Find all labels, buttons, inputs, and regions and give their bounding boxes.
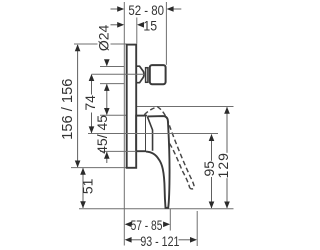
wire ext line plate bottom — [71, 167, 126, 169]
wire ext line handle base bottom — [100, 150, 136, 152]
wire ext line dome top — [100, 66, 124, 68]
arrowhead 95 top — [209, 134, 215, 141]
wire dim shaft 74 — [91, 75, 93, 133]
wire dim shaft below 45/45 — [106, 152, 108, 163]
dashed lever open position: top corner and right edge — [144, 107, 194, 189]
arrowhead 15 right (points left) — [137, 22, 144, 28]
wire dim stub 93-121 right — [179, 239, 192, 241]
text mask for 129 — [217, 153, 229, 178]
svg-text:129: 129 — [215, 152, 231, 178]
arrowhead 93-121 right (points right) — [190, 237, 197, 243]
svg-text:52 - 80: 52 - 80 — [128, 2, 164, 18]
wire dim stub 93-121 left — [131, 239, 142, 241]
wire bottom reference line — [79, 208, 234, 210]
arrowhead 93-121 left (points left) — [125, 237, 132, 243]
wire dim shaft 52-80 right — [173, 8, 182, 10]
arrowhead 156 top — [75, 44, 81, 51]
svg-text:57 - 85: 57 - 85 — [131, 218, 163, 234]
wire ext line handle base top — [100, 114, 126, 116]
valve stub band — [146, 68, 148, 83]
arrowhead 74 bottom — [89, 126, 95, 133]
svg-text:51: 51 — [80, 178, 96, 194]
dashed lever open position: left edge — [170, 144, 190, 188]
handle base — [136, 116, 146, 152]
arrowhead 52-80 right (points left) — [167, 6, 174, 12]
arrowhead Ø24 top (points down) — [104, 59, 110, 66]
wire ext line dome bottom — [100, 83, 124, 85]
svg-text:45/ 45: 45/ 45 — [94, 115, 110, 154]
svg-text:Ø24: Ø24 — [96, 24, 112, 51]
text mask for 74 — [85, 95, 96, 113]
valve stub dome — [137, 66, 144, 83]
wire ext line dashed lever top — [136, 106, 233, 108]
arrowhead 57-85 right (points right) — [163, 222, 170, 228]
svg-text:93 - 121: 93 - 121 — [140, 233, 179, 249]
arrowhead 15 left (points right) — [117, 22, 124, 28]
valve stub cap — [150, 65, 166, 84]
arrowhead 74 top — [89, 74, 95, 81]
arrowhead 129 top — [224, 107, 230, 114]
arrowhead 156 bottom — [75, 161, 81, 168]
lever blade fill — [146, 116, 170, 208]
svg-text:74: 74 — [82, 95, 98, 111]
wire ext line plate top — [74, 43, 126, 45]
arrowhead Ø24 bottom (points up) — [104, 84, 110, 91]
arrowhead 129 bottom — [224, 202, 230, 209]
arrowhead 95 bottom — [209, 202, 215, 209]
wire center line of stub — [92, 73, 145, 75]
arrowhead 45/45 bottom (points up) — [104, 152, 110, 159]
text mask for 95 — [204, 161, 215, 177]
arrowhead 52-80 left (points right) — [117, 6, 124, 12]
wire dim shaft 15 left — [111, 24, 120, 26]
wire dim shaft 52-80 left — [111, 8, 120, 10]
wire center line of handle pivot — [88, 133, 218, 135]
svg-text:15: 15 — [143, 18, 157, 34]
wire right extension line of 52-80 — [165, 2, 167, 65]
svg-text:156 / 156: 156 / 156 — [60, 79, 76, 140]
arrowhead 57-85 left (points left) — [125, 222, 132, 228]
arrowhead 45/45 top (points down) — [104, 108, 110, 115]
wire dim shaft 156/156 — [77, 45, 79, 167]
wire dim shaft above Ø24 — [106, 61, 108, 66]
arrowhead 51 bottom — [80, 201, 86, 208]
wire dim shaft 95 — [211, 135, 213, 209]
wire dim shaft 51 — [82, 168, 84, 208]
text mask for Ø24 — [98, 25, 111, 54]
escutcheon plate (side view) — [127, 45, 137, 168]
lever blade outline — [146, 116, 170, 208]
wire ext line solid lever tip — [169, 209, 171, 231]
lever neck contour — [147, 117, 152, 151]
wire plate-front extension line of 15 — [136, 18, 138, 44]
wire dim shaft between Ø24 and 45/45 — [106, 84, 108, 114]
wire dim shaft 129 — [226, 107, 228, 208]
wire wall extension line — [123, 2, 125, 246]
arrowhead 51 top — [80, 168, 86, 175]
wire ext line dashed lever tip — [196, 211, 198, 246]
